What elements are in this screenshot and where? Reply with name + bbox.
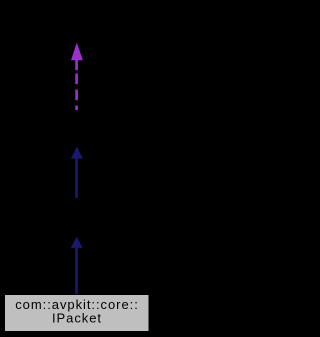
- arrowhead of dashed edge: [71, 43, 83, 61]
- wire: dashed template/usage edge (darkorchid): [75, 60, 78, 110]
- wire: upper solid inheritance edge (midnightblue): [75, 158, 78, 199]
- arrowhead of upper solid edge: [71, 147, 83, 159]
- node com::avpkit::core::IPacket: [5, 295, 150, 332]
- arrowhead of lower solid edge: [71, 237, 83, 248]
- wire: lower solid inheritance edge (midnightblue): [75, 247, 78, 295]
- svg-text:IPacket: IPacket: [52, 311, 102, 326]
